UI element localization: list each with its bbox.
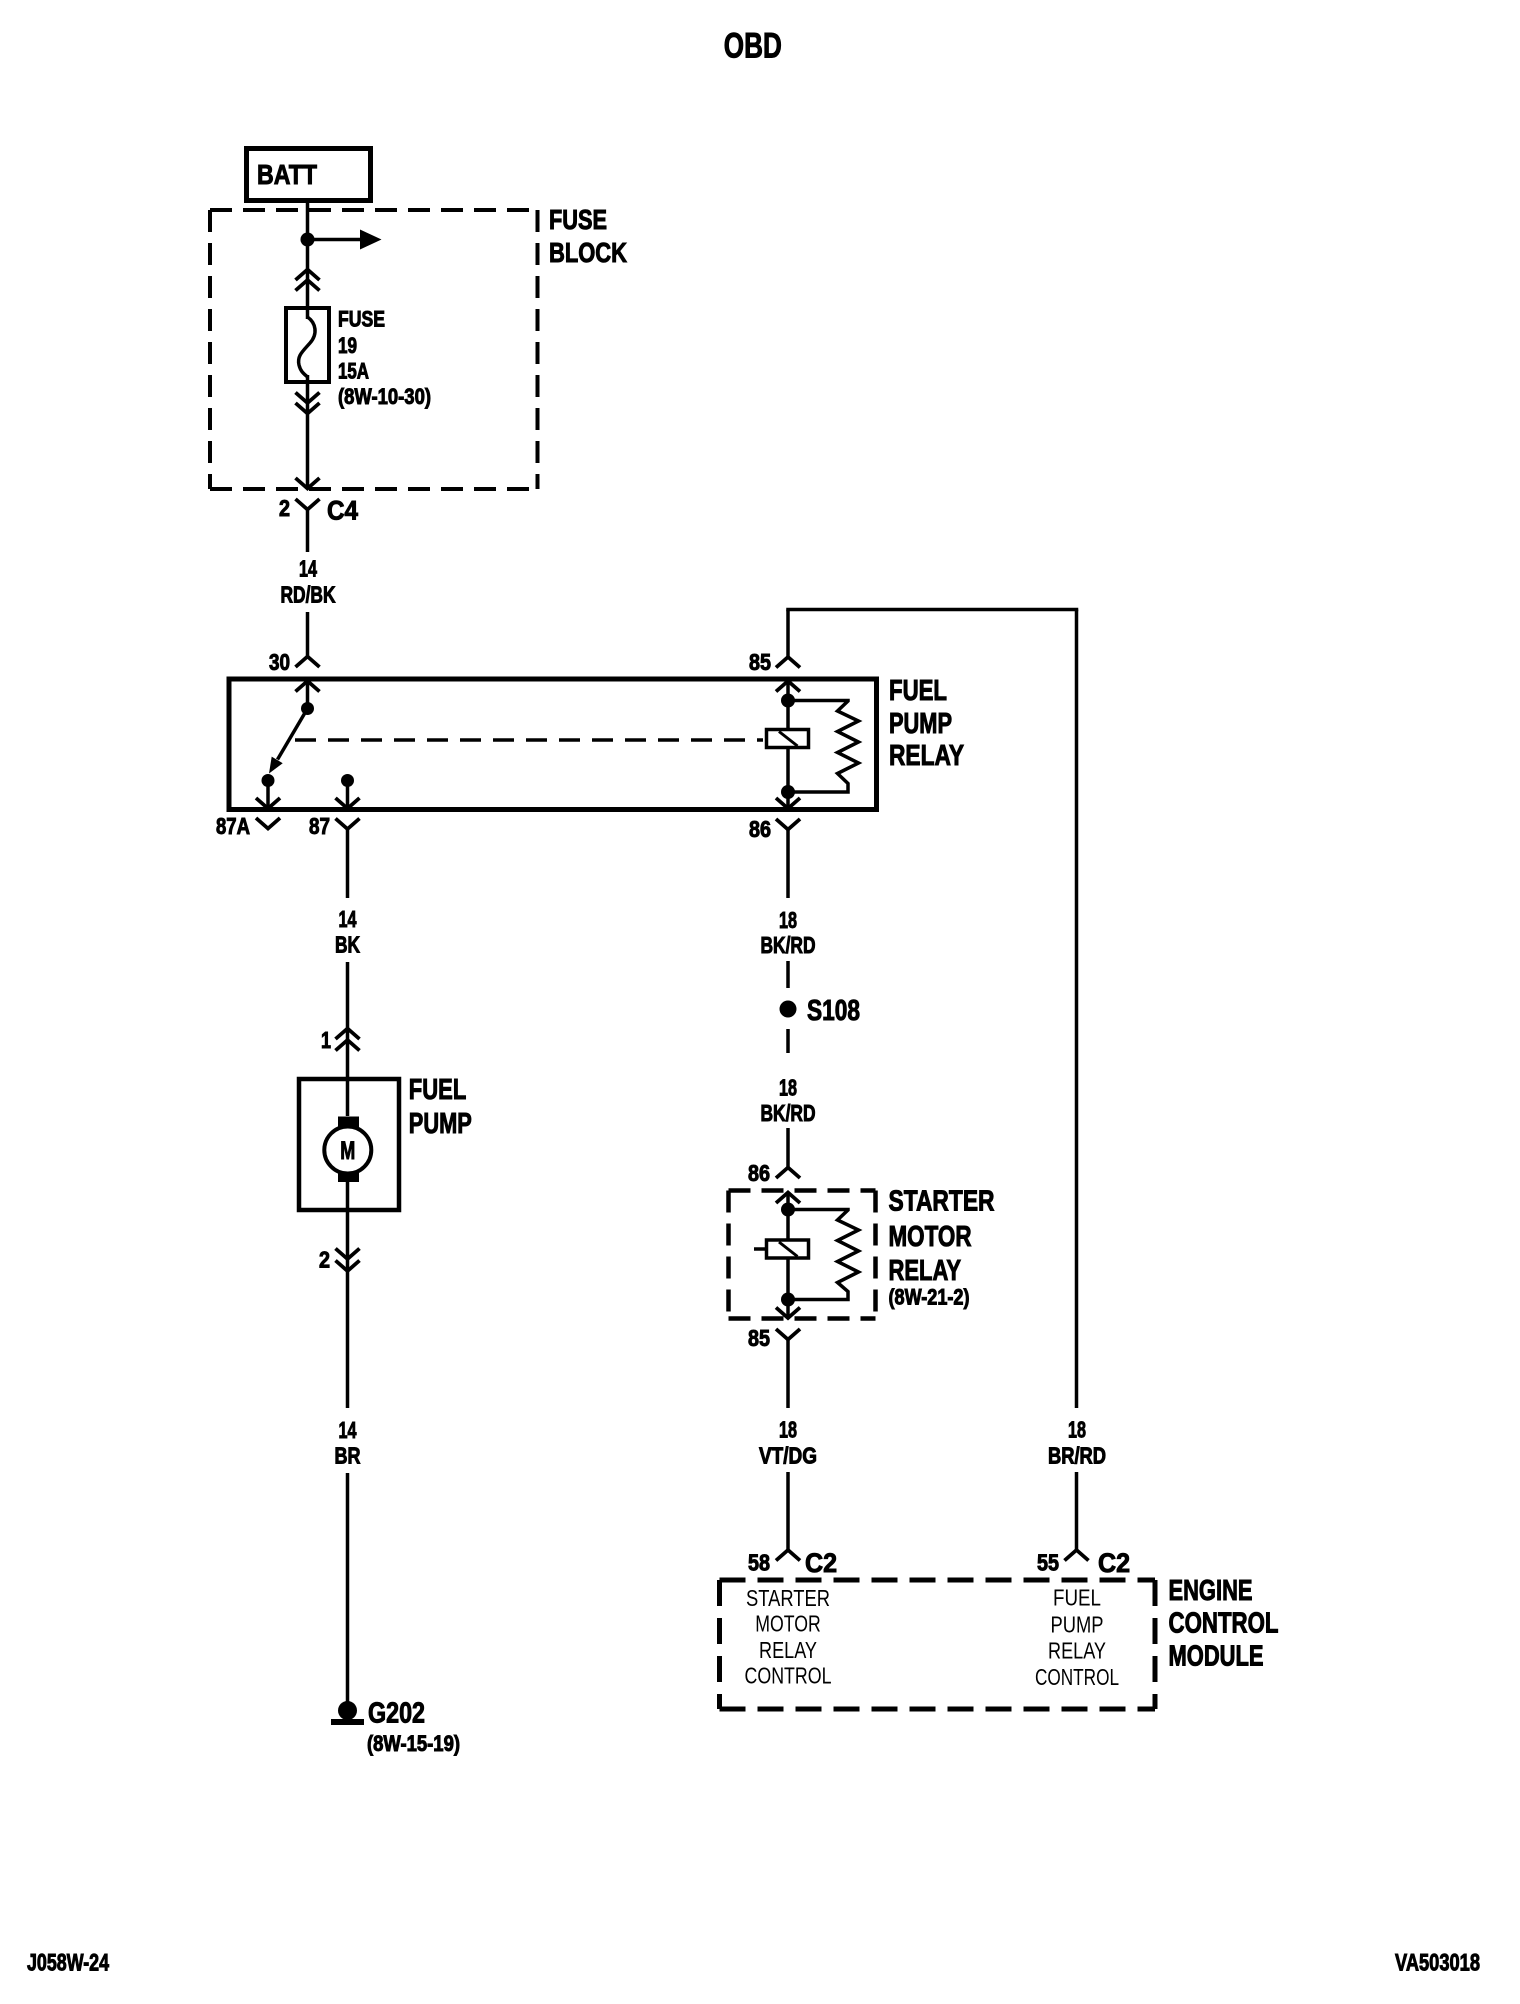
svg-text:15A: 15A	[338, 359, 369, 384]
contact 87 node dot	[341, 774, 354, 787]
wire horizontal run to right	[786, 608, 1078, 612]
svg-text:FUEL: FUEL	[409, 1074, 467, 1106]
connector C4 pin 2 lower half	[296, 499, 320, 510]
relay suppression resistor	[788, 701, 859, 793]
svg-text:PUMP: PUMP	[889, 708, 952, 740]
svg-text:J058W-24: J058W-24	[27, 1950, 109, 1977]
starter relay pin 86 connector inside	[776, 1193, 800, 1204]
splice S108 dot	[780, 1001, 797, 1018]
svg-text:CONTROL: CONTROL	[745, 1662, 832, 1688]
relay switch arm	[278, 709, 308, 760]
engine control module dashed box	[720, 1578, 1156, 1583]
wire motor to pin 2	[346, 1182, 350, 1408]
svg-text:BATT: BATT	[257, 159, 317, 190]
wire coil top	[786, 701, 790, 730]
svg-text:RELAY: RELAY	[759, 1637, 817, 1663]
pin 30 connector outside	[296, 657, 320, 668]
ground G202 symbol	[338, 1701, 357, 1720]
starter relay pin 85 connector outside	[776, 1329, 800, 1340]
wire starter relay 85 down	[786, 1362, 790, 1408]
svg-text:18: 18	[779, 1417, 797, 1443]
svg-text:BK/RD: BK/RD	[761, 932, 816, 958]
motor terminal bottom	[338, 1172, 359, 1183]
svg-text:PUMP: PUMP	[409, 1108, 472, 1140]
starter relay pin 86 connector outside	[776, 1168, 800, 1179]
fuel pump pin 2 double chevron	[336, 1249, 360, 1260]
fuse F19 element curve	[299, 317, 315, 377]
starter relay pin 85 connector inside	[776, 1308, 800, 1319]
svg-text:FUSE: FUSE	[549, 204, 607, 235]
motor terminal top	[338, 1117, 359, 1128]
wire BK to fuel pump pin 1	[346, 962, 350, 1116]
pin 87 connector outside	[336, 819, 360, 830]
wire RD/BK to relay pin 30	[306, 612, 310, 657]
svg-text:STARTER: STARTER	[889, 1186, 995, 1218]
relay control dashed link	[295, 738, 763, 742]
svg-text:14: 14	[339, 1417, 357, 1443]
svg-text:C2: C2	[805, 1548, 837, 1578]
fuel pump box	[299, 1079, 399, 1210]
svg-text:RELAY: RELAY	[1048, 1638, 1106, 1664]
fuse block dashed outline	[210, 208, 538, 212]
wire coil bottom to edge	[786, 792, 790, 807]
pin 85 connector inside	[776, 681, 800, 692]
relay coil bottom node dot	[781, 785, 795, 799]
wire VT/DG to ECM pin 58	[786, 1472, 790, 1550]
svg-text:RELAY: RELAY	[889, 1255, 962, 1287]
starter relay coil element	[767, 1240, 809, 1258]
svg-text:18: 18	[1068, 1417, 1086, 1443]
svg-text:MODULE: MODULE	[1169, 1640, 1264, 1672]
svg-text:STARTER: STARTER	[746, 1585, 830, 1611]
svg-text:G202: G202	[368, 1698, 425, 1730]
wire splice down	[786, 1029, 790, 1053]
svg-text:M: M	[340, 1137, 355, 1165]
wire starter coil top	[786, 1210, 790, 1241]
wire starter coil bottom	[786, 1258, 790, 1300]
svg-text:PUMP: PUMP	[1051, 1611, 1104, 1637]
svg-text:BR: BR	[335, 1443, 361, 1469]
fuel pump pin 1 double chevron	[336, 1029, 360, 1040]
svg-text:OBD: OBD	[724, 27, 782, 66]
wire right vertical run down	[1075, 610, 1079, 1409]
switch common node dot pin 30	[301, 702, 314, 715]
svg-text:BR/RD: BR/RD	[1048, 1443, 1106, 1469]
wire coil bottom	[786, 748, 790, 793]
svg-text:MOTOR: MOTOR	[889, 1221, 972, 1253]
svg-text:VA503018: VA503018	[1395, 1950, 1480, 1977]
svg-text:87: 87	[309, 813, 330, 839]
pin 86 connector inside	[776, 798, 800, 809]
svg-text:(8W-21-2): (8W-21-2)	[889, 1285, 970, 1310]
svg-text:30: 30	[269, 649, 290, 675]
svg-text:19: 19	[338, 333, 357, 358]
svg-text:2: 2	[319, 1247, 330, 1273]
wire C4 to label gap	[306, 510, 310, 553]
svg-text:14: 14	[299, 556, 317, 582]
connector C4 pin 2 upper half	[296, 478, 320, 489]
svg-text:18: 18	[779, 1075, 797, 1101]
svg-text:CONTROL: CONTROL	[1035, 1664, 1119, 1690]
svg-text:85: 85	[748, 1325, 770, 1351]
svg-text:2: 2	[279, 495, 290, 521]
svg-text:VT/DG: VT/DG	[759, 1443, 817, 1469]
svg-text:(8W-15-19): (8W-15-19)	[367, 1731, 460, 1756]
wire 87 dot to edge	[346, 781, 350, 808]
svg-text:58: 58	[748, 1550, 770, 1576]
wire 87A dot to edge	[266, 781, 270, 808]
svg-text:1: 1	[321, 1027, 331, 1053]
wire 87 down to label gap	[346, 852, 350, 898]
node junction dot below BATT	[301, 233, 315, 247]
inline connector double chevron above fuse	[296, 270, 320, 281]
wire starter coil bottom to edge	[786, 1300, 790, 1318]
svg-text:85: 85	[749, 649, 771, 675]
svg-text:87A: 87A	[216, 813, 250, 839]
relay coil top node dot	[781, 694, 795, 708]
svg-text:(8W-10-30): (8W-10-30)	[338, 384, 431, 409]
svg-text:S108: S108	[807, 995, 860, 1027]
svg-text:C2: C2	[1098, 1548, 1130, 1578]
arrow feed to other circuits	[308, 238, 363, 242]
starter relay coil bottom node dot	[781, 1293, 795, 1307]
svg-text:FUEL: FUEL	[889, 675, 947, 707]
relay coil element	[767, 730, 809, 748]
pin 87A connector outside	[256, 818, 280, 829]
inline connector double chevron below fuse	[296, 393, 320, 404]
pin 87A connector inside	[256, 798, 280, 809]
svg-text:18: 18	[779, 907, 797, 933]
wire BATT to fuse	[306, 199, 310, 319]
svg-text:CONTROL: CONTROL	[1169, 1608, 1279, 1640]
wire BK/RD to splice	[786, 961, 790, 988]
battery feed BATT box	[247, 149, 371, 201]
svg-text:BLOCK: BLOCK	[549, 237, 627, 268]
wire 86 down to label gap	[786, 852, 790, 898]
svg-text:FUEL: FUEL	[1053, 1585, 1101, 1611]
pin 86 connector outside	[776, 819, 800, 830]
starter motor relay dashed box	[729, 1188, 876, 1193]
fuse F19 body	[286, 308, 329, 382]
pin 85 connector outside	[776, 657, 800, 668]
svg-text:86: 86	[749, 816, 771, 842]
ECM pin 58 connector	[776, 1550, 800, 1561]
motor M circle	[324, 1127, 371, 1174]
ECM pin 55 connector	[1065, 1550, 1089, 1561]
svg-text:MOTOR: MOTOR	[755, 1610, 821, 1636]
svg-text:C4: C4	[327, 496, 358, 526]
wire BR to ground	[346, 1473, 350, 1702]
pin 87 connector inside	[336, 798, 360, 809]
svg-text:ENGINE: ENGINE	[1169, 1575, 1253, 1607]
starter relay coil top node dot	[781, 1203, 795, 1217]
fuel pump relay box	[229, 679, 877, 810]
wire fuse to connector C4	[306, 375, 310, 488]
wire BK/RD to starter relay pin 86	[786, 1128, 790, 1168]
contact 87A node dot	[262, 774, 275, 787]
wire BR/RD to ECM pin 55	[1075, 1472, 1079, 1550]
svg-text:RD/BK: RD/BK	[281, 582, 336, 608]
svg-text:BK: BK	[335, 932, 360, 958]
svg-text:55: 55	[1037, 1550, 1059, 1576]
svg-text:14: 14	[339, 906, 357, 932]
pin 30 connector inside	[296, 681, 320, 692]
starter relay suppression resistor	[788, 1210, 859, 1300]
svg-text:86: 86	[748, 1160, 770, 1186]
svg-text:FUSE: FUSE	[338, 307, 385, 332]
svg-text:RELAY: RELAY	[889, 740, 964, 772]
svg-text:BK/RD: BK/RD	[761, 1100, 816, 1126]
wire pin 85 up to horizontal run	[786, 610, 790, 658]
